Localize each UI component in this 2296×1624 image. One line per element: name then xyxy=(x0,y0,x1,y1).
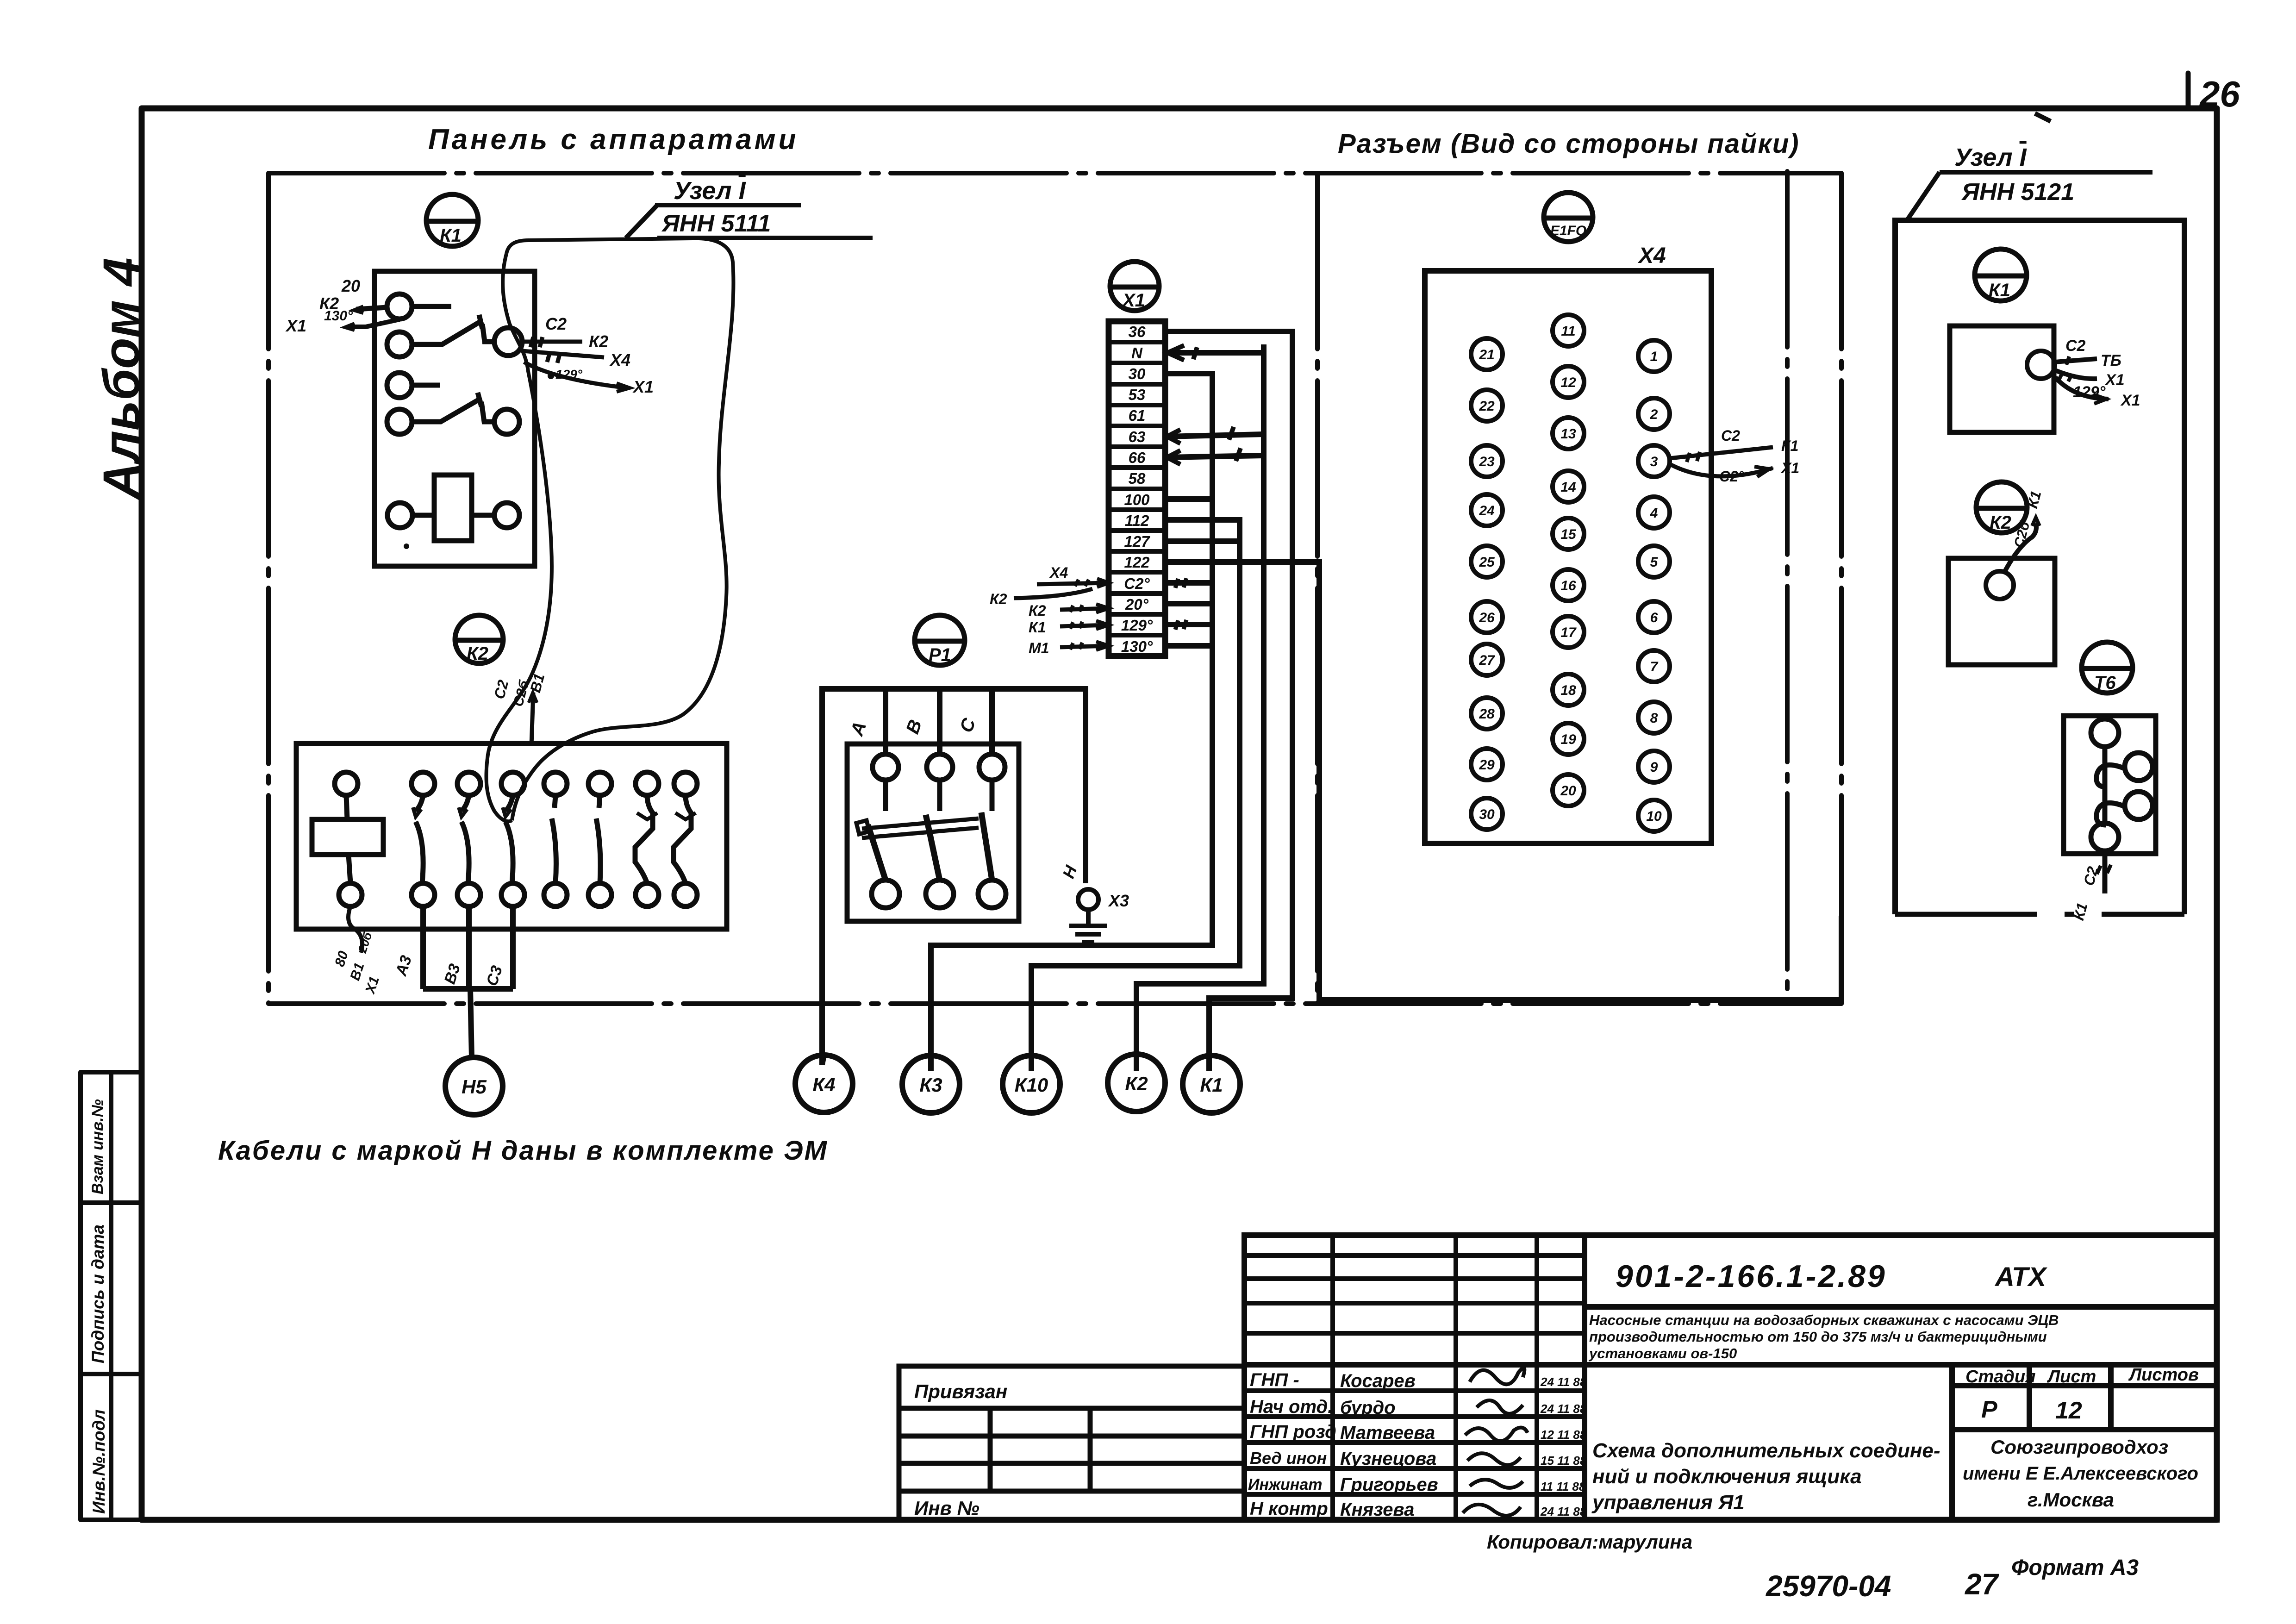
svg-text:Григорьев: Григорьев xyxy=(1340,1474,1438,1495)
svg-text:Х1: Х1 xyxy=(2120,392,2140,409)
svg-text:7: 7 xyxy=(1650,659,1659,675)
svg-text:Узел I: Узел I xyxy=(674,177,746,205)
svg-text:13: 13 xyxy=(1560,426,1576,442)
svg-text:С: С xyxy=(956,715,980,735)
svg-text:11 11 88: 11 11 88 xyxy=(1541,1480,1586,1493)
svg-text:58: 58 xyxy=(1129,470,1146,487)
svg-text:Х1: Х1 xyxy=(1780,460,1799,476)
svg-text:К2: К2 xyxy=(589,332,608,351)
svg-text:Панель с аппаратами: Панель с аппаратами xyxy=(428,124,799,156)
svg-text:4: 4 xyxy=(1650,506,1658,521)
svg-text:Е1FQ: Е1FQ xyxy=(1550,223,1586,238)
svg-text:Инжинат: Инжинат xyxy=(1248,1476,1322,1493)
svg-text:25970-04: 25970-04 xyxy=(1766,1569,1891,1603)
svg-text:Инв №: Инв № xyxy=(914,1497,980,1519)
svg-text:Формат А3: Формат А3 xyxy=(2011,1555,2139,1580)
svg-text:20: 20 xyxy=(341,276,360,295)
svg-text:производительностью от 150 до: производительностью от 150 до 375 мз/ч и… xyxy=(1589,1329,2047,1345)
svg-text:66: 66 xyxy=(1129,449,1146,466)
svg-text:Х3: Х3 xyxy=(1108,891,1129,910)
svg-text:Князева: Князева xyxy=(1340,1499,1414,1520)
svg-text:Х4: Х4 xyxy=(1637,244,1666,268)
svg-text:А: А xyxy=(847,719,871,739)
svg-text:установками ов-150: установками ов-150 xyxy=(1588,1345,1737,1362)
svg-text:С2б: С2б xyxy=(2011,519,2033,550)
svg-text:С2: С2 xyxy=(491,678,512,701)
svg-text:27: 27 xyxy=(1479,653,1495,668)
svg-text:К1: К1 xyxy=(2070,901,2090,922)
svg-text:2: 2 xyxy=(1650,407,1658,422)
svg-text:8: 8 xyxy=(1650,711,1658,726)
svg-text:19: 19 xyxy=(1560,732,1576,747)
svg-text:22: 22 xyxy=(1479,399,1495,414)
svg-text:28: 28 xyxy=(1479,706,1495,722)
svg-text:бурдо: бурдо xyxy=(1340,1398,1396,1418)
svg-text:С2: С2 xyxy=(2065,337,2086,355)
svg-text:С2°: С2° xyxy=(1124,575,1150,592)
svg-text:Насосные станции на водозаборн: Насосные станции на водозаборных скважин… xyxy=(1589,1312,2059,1328)
svg-text:901-2-166.1-2.89: 901-2-166.1-2.89 xyxy=(1616,1259,1887,1294)
svg-text:К4: К4 xyxy=(812,1074,835,1095)
svg-text:63: 63 xyxy=(1129,428,1146,445)
svg-text:А3: А3 xyxy=(392,953,415,978)
svg-text:С2: С2 xyxy=(1721,427,1740,444)
svg-text:21: 21 xyxy=(1479,347,1494,362)
svg-text:управления Я1: управления Я1 xyxy=(1591,1491,1745,1514)
svg-text:17: 17 xyxy=(1560,625,1577,640)
svg-text:Х1: Х1 xyxy=(2104,371,2125,389)
svg-text:24 11 88: 24 11 88 xyxy=(1540,1402,1587,1416)
svg-text:53: 53 xyxy=(1129,386,1146,403)
svg-text:ГНП розд: ГНП розд xyxy=(1250,1422,1336,1442)
svg-text:Кабели с маркой Н даны в компл: Кабели с маркой Н даны в комплекте ЭМ xyxy=(218,1136,828,1166)
svg-text:Стадия: Стадия xyxy=(1965,1367,2035,1387)
svg-text:К3: К3 xyxy=(919,1074,942,1096)
svg-text:Х1: Х1 xyxy=(632,377,654,396)
svg-text:10: 10 xyxy=(1646,809,1662,824)
svg-text:Х4: Х4 xyxy=(609,350,630,369)
svg-text:Кузнецова: Кузнецова xyxy=(1340,1449,1436,1469)
svg-text:Матвеева: Матвеева xyxy=(1340,1423,1435,1443)
svg-text:Подпись и дата: Подпись и дата xyxy=(88,1224,107,1363)
svg-text:130°: 130° xyxy=(1121,638,1153,655)
svg-text:Узел I: Узел I xyxy=(1954,144,2027,171)
svg-text:9: 9 xyxy=(1650,760,1658,775)
svg-text:127: 127 xyxy=(1124,533,1150,550)
svg-text:К1: К1 xyxy=(1200,1074,1223,1096)
svg-text:К2: К2 xyxy=(1029,602,1046,619)
svg-text:Н: Н xyxy=(1059,862,1081,881)
svg-text:26: 26 xyxy=(2199,74,2240,114)
svg-text:15 11 88: 15 11 88 xyxy=(1541,1454,1587,1468)
svg-text:27: 27 xyxy=(1965,1568,2000,1601)
svg-text:61: 61 xyxy=(1129,407,1146,424)
svg-text:К2: К2 xyxy=(1990,512,2011,533)
svg-text:К1: К1 xyxy=(1029,619,1046,636)
svg-text:К10: К10 xyxy=(1015,1074,1048,1096)
svg-text:Взам инв.№: Взам инв.№ xyxy=(89,1099,106,1194)
svg-text:14: 14 xyxy=(1560,480,1576,495)
svg-text:ЯНН 5111: ЯНН 5111 xyxy=(661,210,771,237)
svg-text:122: 122 xyxy=(1124,554,1150,571)
svg-text:К1: К1 xyxy=(1989,280,2010,300)
svg-text:С2°: С2° xyxy=(1719,468,1744,485)
svg-text:Т6: Т6 xyxy=(2094,673,2116,693)
svg-text:К1: К1 xyxy=(440,225,462,246)
svg-text:29: 29 xyxy=(1479,757,1495,773)
svg-text:В: В xyxy=(902,717,926,737)
svg-text:129°: 129° xyxy=(1121,617,1153,634)
svg-text:23: 23 xyxy=(1479,454,1495,469)
svg-text:24 11 88: 24 11 88 xyxy=(1540,1505,1587,1518)
svg-text:К1: К1 xyxy=(1781,437,1798,454)
svg-text:АТХ: АТХ xyxy=(1994,1262,2047,1292)
svg-text:Косарев: Косарев xyxy=(1340,1371,1416,1391)
svg-text:Привязан: Привязан xyxy=(914,1380,1007,1402)
svg-text:Х1: Х1 xyxy=(1122,290,1145,311)
svg-text:130°: 130° xyxy=(324,308,353,324)
svg-text:Н5: Н5 xyxy=(462,1076,487,1098)
svg-text:ЯНН 5121: ЯНН 5121 xyxy=(1961,179,2074,206)
svg-text:Р1: Р1 xyxy=(929,645,951,665)
svg-text:Копировал:марулина: Копировал:марулина xyxy=(1487,1531,1692,1553)
svg-text:Разъем (Вид со стороны пайки: Разъем (Вид со стороны пайки) xyxy=(1338,129,1800,159)
svg-text:В1: В1 xyxy=(347,961,367,982)
svg-text:25: 25 xyxy=(1479,555,1495,570)
svg-text:К1: К1 xyxy=(2024,489,2044,510)
svg-text:К2: К2 xyxy=(1125,1073,1148,1094)
svg-text:30: 30 xyxy=(1129,365,1146,382)
svg-text:К2: К2 xyxy=(990,591,1007,607)
svg-text:ТБ: ТБ xyxy=(2101,352,2121,369)
svg-text:18: 18 xyxy=(1560,683,1576,698)
svg-text:Вед инон: Вед инон xyxy=(1250,1449,1327,1468)
svg-text:1: 1 xyxy=(1650,349,1658,364)
svg-text:Союзгипроводхоз: Союзгипроводхоз xyxy=(1990,1436,2168,1458)
svg-text:20°: 20° xyxy=(1125,596,1149,613)
svg-text:24 11 88: 24 11 88 xyxy=(1540,1375,1587,1389)
svg-text:К2: К2 xyxy=(467,643,488,664)
svg-text:100: 100 xyxy=(1124,491,1150,508)
svg-text:15: 15 xyxy=(1560,527,1577,542)
svg-text:36: 36 xyxy=(1129,323,1146,340)
svg-text:20: 20 xyxy=(1560,783,1576,799)
svg-text:80: 80 xyxy=(332,949,351,968)
svg-text:Х4: Х4 xyxy=(1049,564,1068,581)
svg-text:Нач отд.: Нач отд. xyxy=(1250,1397,1333,1417)
svg-text:112: 112 xyxy=(1125,512,1149,529)
svg-text:24: 24 xyxy=(1479,503,1495,518)
svg-text:ний и подключения ящика: ний и подключения ящика xyxy=(1592,1465,1862,1488)
svg-text:30: 30 xyxy=(1479,807,1495,822)
svg-text:11: 11 xyxy=(1561,324,1575,339)
svg-text:ГНП -: ГНП - xyxy=(1250,1370,1299,1390)
svg-text:12: 12 xyxy=(2055,1397,2082,1424)
svg-text:12: 12 xyxy=(1560,375,1576,390)
svg-text:М1: М1 xyxy=(1029,640,1049,656)
svg-text:5: 5 xyxy=(1650,555,1659,570)
svg-text:С2: С2 xyxy=(545,314,567,333)
svg-text:Р: Р xyxy=(1981,1396,1997,1423)
svg-text:6: 6 xyxy=(1650,610,1658,625)
svg-text:Листов: Листов xyxy=(2128,1365,2199,1385)
svg-text:Инв.№.подл: Инв.№.подл xyxy=(89,1410,108,1514)
svg-text:Х1: Х1 xyxy=(285,316,306,335)
svg-text:N: N xyxy=(1131,344,1143,362)
svg-text:3: 3 xyxy=(1650,454,1658,469)
svg-text:26: 26 xyxy=(1479,610,1495,625)
svg-text:Лист: Лист xyxy=(2046,1367,2096,1387)
svg-text:С3: С3 xyxy=(483,963,506,988)
svg-text:16: 16 xyxy=(1560,578,1576,593)
svg-text:имени Е Е.Алексеевского: имени Е Е.Алексеевского xyxy=(1963,1463,2198,1484)
svg-text:129°: 129° xyxy=(2073,383,2106,401)
svg-text:В3: В3 xyxy=(441,962,464,986)
svg-text:Н контр: Н контр xyxy=(1250,1499,1328,1519)
svg-text:Схема дополнительных соедине-: Схема дополнительных соедине- xyxy=(1592,1439,1940,1462)
svg-text:Альбом 4: Альбом 4 xyxy=(93,257,150,500)
svg-text:Х1: Х1 xyxy=(362,974,382,996)
svg-text:12 11 88: 12 11 88 xyxy=(1541,1428,1587,1442)
svg-text:г.Москва: г.Москва xyxy=(2028,1489,2114,1511)
